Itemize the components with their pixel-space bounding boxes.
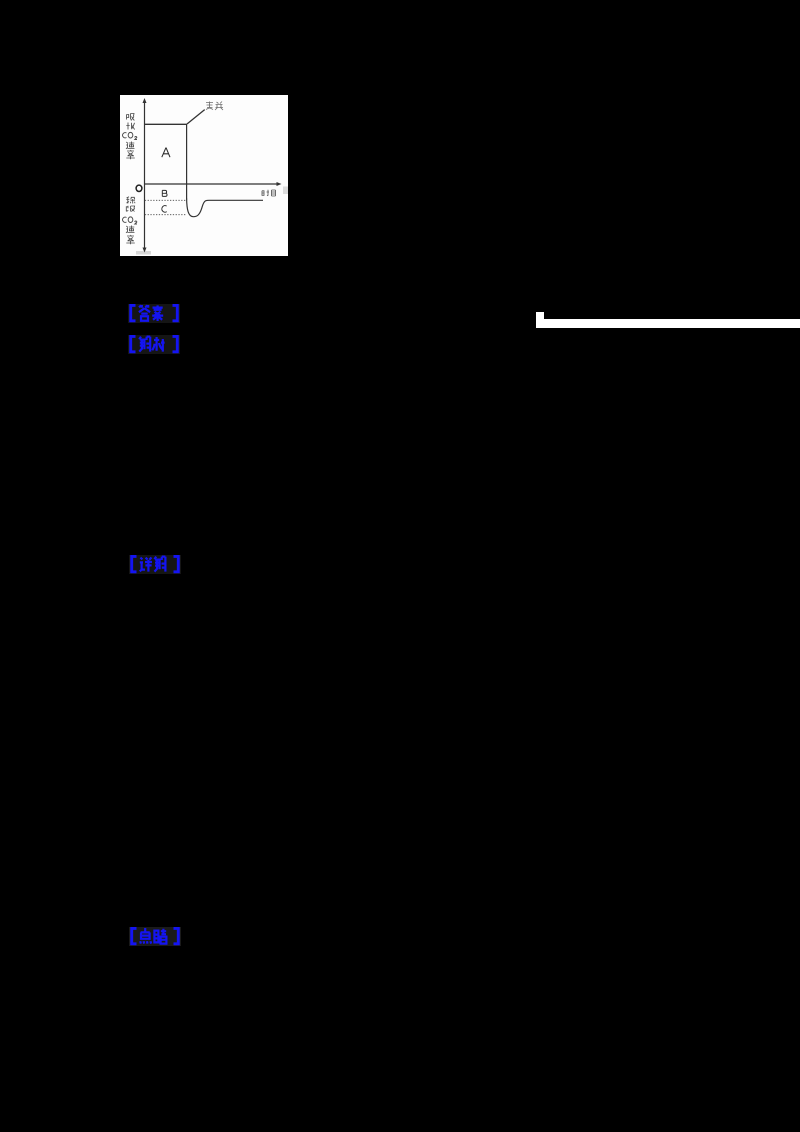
chart figure: CO2 absorption/release rate vs time xyxy=(120,95,288,256)
white bar at right (truncated ui element) xyxy=(536,312,544,328)
CO2 xyxy=(123,217,137,224)
blue label 【解析】 xyxy=(128,335,180,354)
dip curve below axis then plateau xyxy=(187,199,263,217)
vertical drop line at shading moment xyxy=(186,124,188,199)
y-axis top arrowhead xyxy=(143,98,147,103)
pointer line to shading label xyxy=(187,110,205,124)
CO2 xyxy=(123,132,137,139)
origin O xyxy=(136,185,142,191)
figure white background xyxy=(120,95,288,256)
faint artifact under y-axis bottom arrow xyxy=(136,251,151,255)
blue label 【点睛】 xyxy=(129,927,181,946)
x-axis xyxy=(145,183,280,185)
速 xyxy=(126,142,135,149)
dotted level line 2 xyxy=(145,214,187,216)
region label A xyxy=(162,148,170,158)
放 xyxy=(126,206,135,212)
速 xyxy=(126,226,135,233)
region label B xyxy=(162,190,167,196)
region label C xyxy=(162,206,167,213)
x-axis arrowhead xyxy=(277,182,282,186)
y-axis bottom arrowhead xyxy=(143,248,147,253)
dotted level line 1 xyxy=(145,199,187,201)
y-axis xyxy=(144,101,146,249)
吸 xyxy=(127,114,135,121)
label 遮光 (shading) xyxy=(206,102,223,111)
x-axis label 时间 (time) xyxy=(262,190,276,196)
blue label 【答案】 xyxy=(128,304,180,323)
率 xyxy=(126,150,135,159)
释 xyxy=(126,197,135,204)
率 xyxy=(126,235,135,244)
y-axis lower label: 释放CO2速率 (vertical) xyxy=(123,197,137,244)
blue label 【详解】 xyxy=(129,555,181,574)
faint artifact right of x-axis arrow xyxy=(283,187,288,195)
top plateau line (light on) xyxy=(145,123,188,125)
收 xyxy=(126,123,134,130)
y-axis upper label: 吸收CO2速率 (vertical) xyxy=(123,114,137,160)
